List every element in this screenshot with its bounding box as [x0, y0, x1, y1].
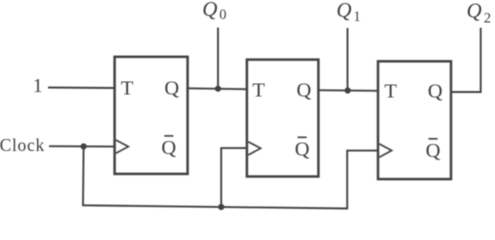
svg-text:Q: Q: [164, 78, 179, 100]
U2 clock triangle: [248, 142, 260, 155]
node: Q0 junction: [215, 86, 221, 92]
svg-text:T: T: [252, 79, 265, 101]
svg-text:T: T: [121, 78, 134, 100]
svg-text:2: 2: [484, 11, 491, 27]
svg-text:Q: Q: [336, 0, 351, 22]
svg-text:Q: Q: [467, 0, 482, 23]
label Q1: [336, 0, 360, 25]
node: clock bottom junction: [218, 204, 224, 210]
wire: Q1 vertical to label: [347, 28, 349, 91]
U1 pin label Q-bar: [161, 136, 176, 159]
svg-text:T: T: [384, 81, 397, 103]
svg-text:Q: Q: [296, 79, 311, 101]
label Q2: [467, 0, 492, 27]
wire: clock bottom bus: [82, 205, 347, 208]
svg-text:Q: Q: [202, 0, 217, 21]
wire: Q0 vertical to label: [217, 28, 219, 89]
svg-text:1: 1: [33, 76, 43, 97]
wire: Clock to U1.clk: [49, 145, 115, 147]
wire: U1.Q to U2.T (node Q0): [188, 87, 247, 90]
svg-text:0: 0: [219, 7, 226, 23]
wire: clock riser to U3.clk: [347, 151, 378, 210]
U1 clock triangle: [116, 140, 128, 153]
U3 clock triangle: [379, 144, 391, 157]
svg-text:1: 1: [353, 9, 360, 25]
flip-flop U3 box: [378, 61, 451, 179]
wire: U2.Q to U3.T (node Q1): [318, 89, 378, 92]
node: clock branch junction: [81, 143, 87, 149]
flip-flop U1 box: [115, 57, 188, 174]
svg-text:Q: Q: [426, 140, 441, 162]
svg-text:Q: Q: [161, 137, 176, 159]
node: Q1 junction: [345, 87, 351, 93]
wire: 1 to U1.T: [48, 87, 115, 90]
svg-text:Clock: Clock: [0, 135, 45, 155]
wire: clock riser to U2.clk: [221, 148, 247, 207]
svg-text:Q: Q: [295, 138, 310, 160]
wire: clock branch vertical down: [82, 146, 85, 205]
wire: U3.Q to node Q2: [451, 28, 481, 92]
flip-flop U2 box: [247, 60, 319, 177]
svg-text:Q: Q: [428, 81, 443, 103]
U2 pin label Q-bar: [295, 137, 310, 160]
label Q0: [202, 0, 226, 23]
U3 pin label Q-bar: [426, 139, 441, 162]
